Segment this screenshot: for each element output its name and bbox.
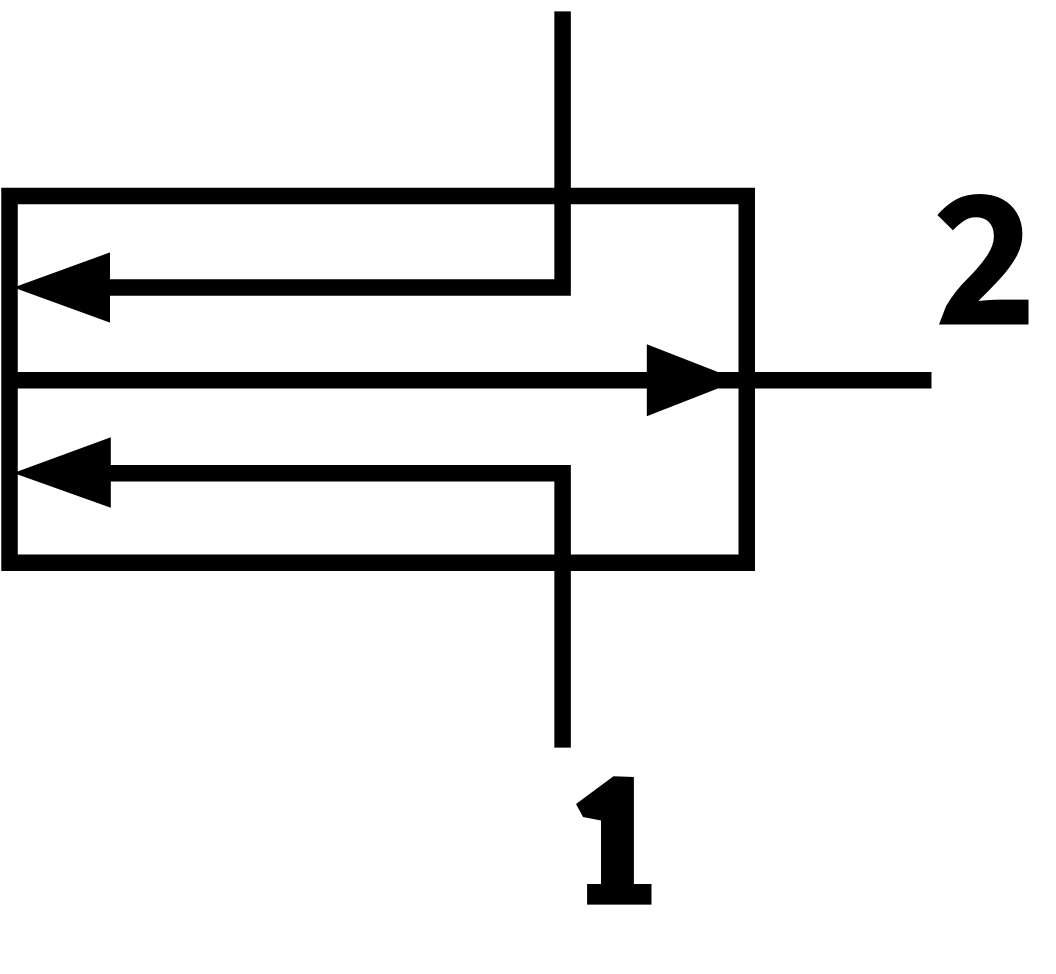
flow arrow lower (leftward) bbox=[14, 437, 111, 508]
wire: middle flow path from left wall out to port 2 bbox=[10, 372, 932, 389]
wire: lower flow path with elbow down to port 1 bbox=[104, 473, 563, 747]
port label 1 bbox=[576, 776, 652, 904]
valve body (enclosure rectangle) bbox=[10, 196, 747, 563]
wire: top port line with elbow into upper flow path bbox=[104, 11, 563, 287]
flow arrow middle (rightward, toward port 2) bbox=[647, 344, 739, 416]
flow arrow upper (leftward) bbox=[14, 252, 111, 322]
port label 2 bbox=[937, 194, 1028, 325]
